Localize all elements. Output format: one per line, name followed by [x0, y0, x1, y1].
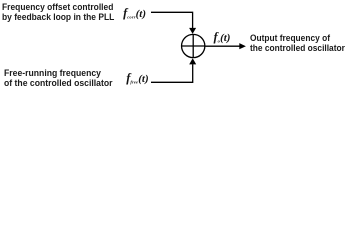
- arrowhead into summer bottom: [189, 58, 196, 64]
- annotation: top-left caption: [2, 2, 114, 22]
- node label f_corr(t): [123, 7, 146, 21]
- node label f_o(t): [214, 31, 231, 45]
- node label f_free(t): [126, 72, 148, 86]
- summing junction circle: [182, 34, 205, 57]
- arrowhead: output: [239, 43, 246, 49]
- arrowhead into summer top: [189, 28, 196, 34]
- wire: output from summer: [205, 45, 239, 47]
- wire: bottom input from f_free label to summer: [151, 64, 193, 82]
- wire: top input from f_corr label to summer: [151, 12, 193, 28]
- plus sign inside summer: [182, 35, 205, 58]
- annotation: output caption: [250, 33, 345, 53]
- annotation: bottom-left caption: [4, 68, 112, 88]
